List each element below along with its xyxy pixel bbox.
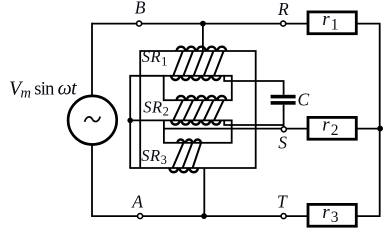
wire: capacitor bottom lead down to node S — [283, 105, 285, 129]
junction on left bus — [127, 118, 133, 124]
svg-text:C: C — [298, 89, 310, 109]
terminal node R — [281, 21, 286, 26]
winding SR3: bottom arcs — [170, 168, 198, 172]
winding SR2: bottom arcs — [171, 120, 220, 124]
svg-text:S: S — [278, 132, 287, 152]
core rectangle between SR1 and SR2 — [164, 76, 232, 100]
terminal node S — [281, 127, 286, 132]
resistor r3 box — [308, 204, 356, 226]
wire: SR1 output stub to capacitor — [224, 76, 283, 95]
resistor r2 box — [308, 117, 356, 139]
saturable reactor core: outer rectangle — [129, 51, 255, 168]
svg-text:A: A — [131, 191, 143, 211]
capacitor C top plate — [271, 95, 296, 99]
wire: left conductor from source to bottom — [91, 145, 93, 217]
wire: right vertical conductor joining r1, r2, r3 — [358, 24, 380, 217]
svg-text:B: B — [135, 0, 146, 18]
wire: r2 right lead — [357, 128, 380, 130]
saturable reactor winding SR3: top arcs — [177, 140, 201, 143]
wire: top conductor from source to resistor r1 — [92, 23, 308, 25]
saturable reactor winding SR1: top arcs — [177, 47, 226, 51]
wire: bottom conductor from source to resistor r3 — [92, 215, 308, 217]
AC source Vm sin wt: circle — [68, 96, 117, 145]
svg-text:T: T — [277, 191, 288, 211]
core rectangle between SR2 and SR3 — [164, 120, 232, 142]
junction: top node — [200, 21, 206, 27]
winding SR1: bottom arcs — [171, 76, 220, 80]
AC source sine symbol — [85, 117, 101, 122]
capacitor C bottom plate — [271, 101, 296, 105]
wire: from SR3 winding down to bottom junction — [203, 168, 205, 216]
wire: bus to SR2 bottom line — [130, 119, 164, 121]
terminal node A — [138, 214, 143, 219]
wire: left bus linking winding returns — [130, 76, 164, 168]
wire: left conductor down to source — [91, 23, 93, 96]
svg-text:Vm sin ωt: Vm sin ωt — [9, 77, 77, 101]
saturable reactor winding SR2: top arcs — [177, 96, 226, 100]
terminal node T — [281, 214, 286, 219]
winding SR2: diagonal turns — [173, 100, 223, 120]
wire: SR2 output stub — [224, 120, 283, 125]
winding SR3: diagonal turns — [173, 143, 201, 168]
junction: right bus at r2 — [377, 126, 383, 132]
winding SR1: diagonal turns — [173, 51, 223, 76]
wire: node S conductor to resistor r2 — [164, 128, 308, 130]
svg-text:R: R — [277, 0, 289, 19]
junction: bottom node — [201, 213, 207, 219]
wire: from top junction down to SR1 winding — [202, 24, 204, 51]
resistor r1 box — [308, 12, 356, 34]
terminal node B — [137, 21, 142, 26]
